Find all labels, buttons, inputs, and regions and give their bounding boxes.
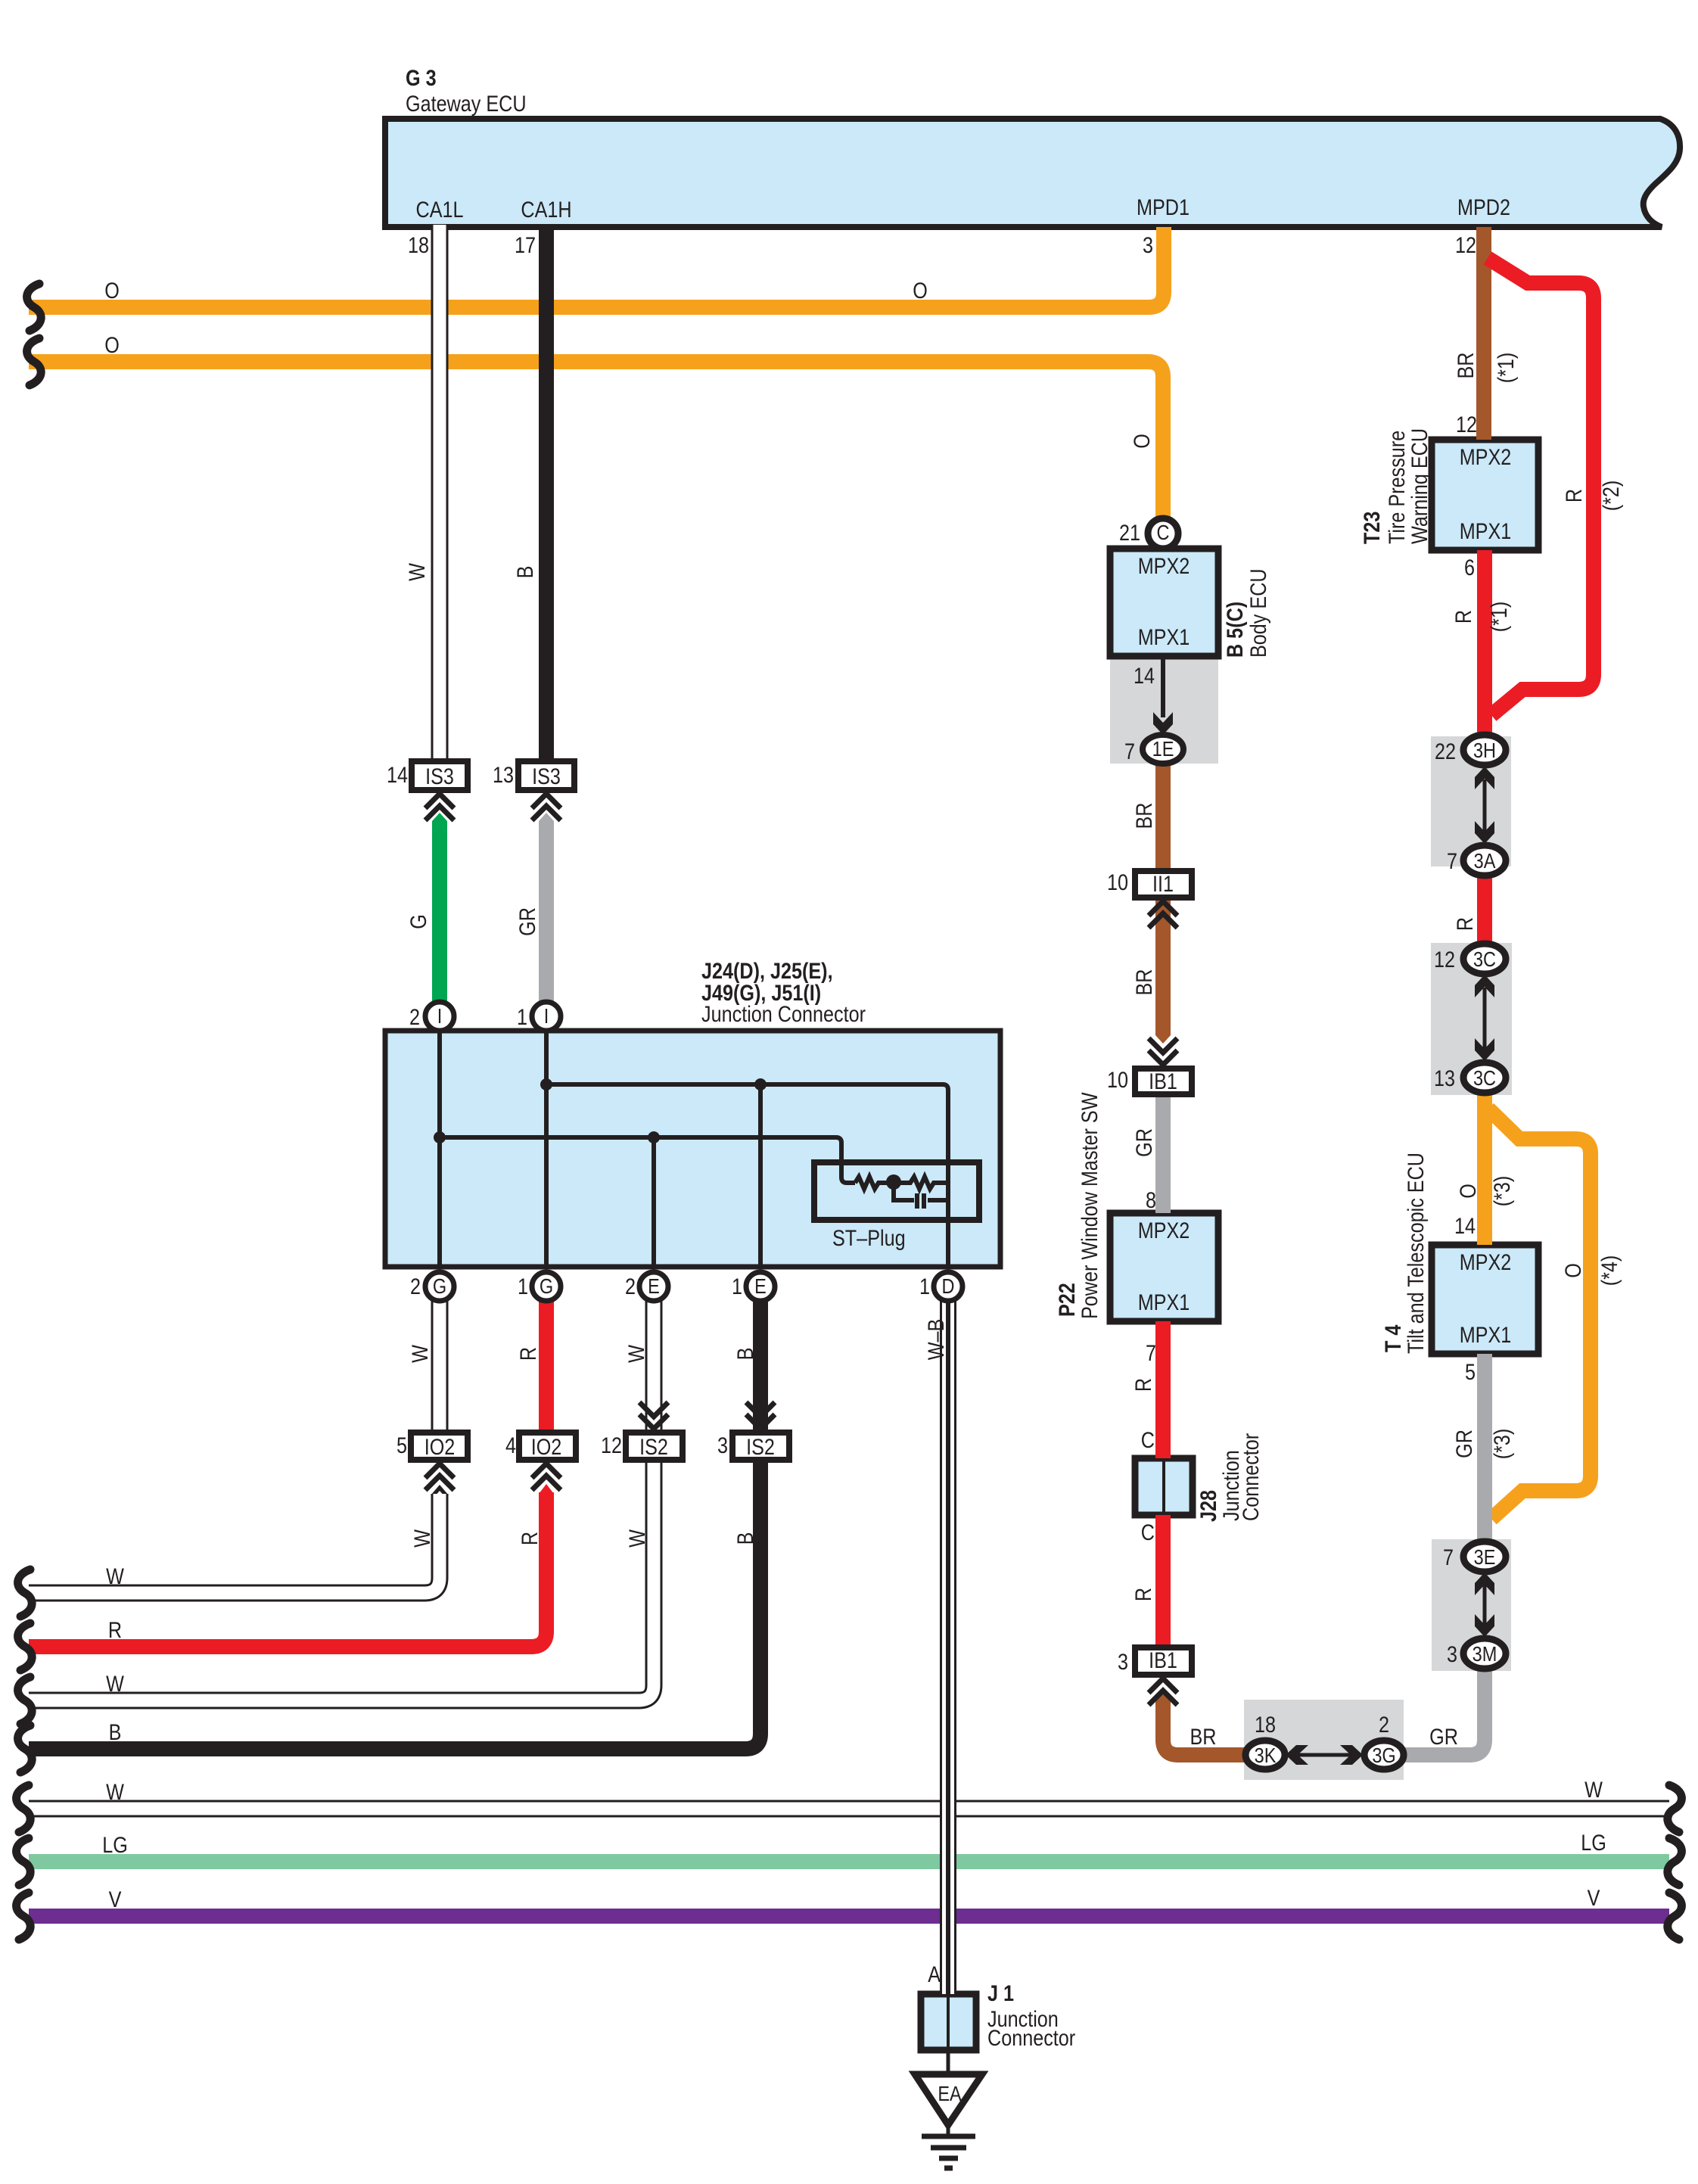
svg-text:(*4): (*4)	[1597, 1255, 1622, 1286]
svg-text:3: 3	[1118, 1649, 1128, 1675]
svg-text:J 1: J 1	[987, 1980, 1014, 2006]
svg-text:13: 13	[493, 762, 514, 788]
svg-text:13: 13	[1434, 1066, 1455, 1091]
svg-text:BR: BR	[1190, 1724, 1217, 1750]
svg-text:IS3: IS3	[532, 764, 561, 789]
svg-text:1E: 1E	[1152, 738, 1174, 761]
svg-text:O: O	[913, 278, 928, 303]
svg-text:T23: T23	[1359, 512, 1385, 544]
svg-text:12: 12	[601, 1433, 622, 1458]
svg-text:3A: 3A	[1474, 850, 1496, 873]
svg-text:W: W	[409, 1529, 435, 1548]
svg-text:A: A	[928, 1962, 941, 1987]
svg-text:7: 7	[1443, 1545, 1454, 1570]
svg-text:BR: BR	[1131, 969, 1157, 996]
svg-text:V: V	[109, 1887, 122, 1912]
svg-text:Body ECU: Body ECU	[1246, 568, 1271, 658]
svg-text:O: O	[104, 278, 120, 303]
svg-text:I: I	[437, 1005, 443, 1028]
svg-text:12: 12	[1434, 947, 1455, 972]
svg-text:O: O	[1455, 1184, 1481, 1199]
svg-text:(*1): (*1)	[1486, 602, 1512, 633]
svg-text:J28: J28	[1196, 1490, 1221, 1522]
svg-text:O: O	[104, 332, 120, 358]
svg-text:IS3: IS3	[425, 764, 454, 789]
svg-text:B: B	[732, 1532, 758, 1545]
svg-text:1: 1	[919, 1274, 930, 1299]
svg-text:3H: 3H	[1473, 739, 1496, 762]
svg-text:18: 18	[408, 232, 429, 258]
svg-text:3K: 3K	[1255, 1744, 1277, 1767]
svg-text:10: 10	[1107, 870, 1128, 895]
svg-text:2: 2	[1379, 1712, 1389, 1738]
svg-text:Tilt and Telescopic ECU: Tilt and Telescopic ECU	[1403, 1153, 1429, 1354]
svg-text:ST–Plug: ST–Plug	[832, 1225, 906, 1251]
svg-text:18: 18	[1255, 1712, 1276, 1738]
svg-text:3M: 3M	[1473, 1643, 1497, 1666]
svg-text:MPX1: MPX1	[1138, 624, 1190, 650]
svg-text:MPX2: MPX2	[1138, 1218, 1190, 1243]
svg-text:R: R	[1561, 489, 1587, 502]
svg-text:Gateway ECU: Gateway ECU	[406, 91, 527, 117]
svg-text:3: 3	[1143, 232, 1153, 258]
svg-text:C: C	[1157, 521, 1170, 544]
svg-text:8: 8	[1146, 1187, 1156, 1213]
svg-text:CA1H: CA1H	[521, 197, 571, 222]
svg-text:W: W	[624, 1529, 650, 1548]
svg-text:E: E	[754, 1275, 767, 1298]
svg-text:E: E	[648, 1275, 660, 1298]
svg-text:P22: P22	[1054, 1283, 1080, 1317]
svg-text:R: R	[1451, 610, 1476, 624]
svg-text:MPX1: MPX1	[1138, 1290, 1190, 1315]
svg-text:14: 14	[1134, 663, 1155, 689]
svg-text:MPX2: MPX2	[1460, 1249, 1512, 1275]
svg-text:B: B	[109, 1719, 122, 1745]
svg-text:7: 7	[1447, 848, 1457, 874]
svg-text:2: 2	[409, 1004, 420, 1030]
svg-text:EA: EA	[938, 2083, 962, 2105]
svg-text:IO2: IO2	[424, 1434, 456, 1460]
svg-text:GR: GR	[515, 907, 540, 936]
svg-text:G: G	[406, 914, 431, 929]
svg-text:R: R	[517, 1532, 543, 1545]
svg-text:D: D	[942, 1275, 955, 1298]
svg-text:3: 3	[717, 1433, 728, 1458]
svg-text:W: W	[407, 1344, 433, 1363]
svg-text:MPX2: MPX2	[1460, 444, 1512, 470]
svg-text:C: C	[1141, 1427, 1155, 1453]
svg-text:(*2): (*2)	[1598, 481, 1624, 512]
svg-text:T 4: T 4	[1380, 1324, 1406, 1352]
svg-text:12: 12	[1456, 412, 1477, 437]
svg-text:21: 21	[1119, 520, 1140, 546]
svg-text:3: 3	[1447, 1641, 1457, 1667]
svg-text:BR: BR	[1131, 803, 1157, 829]
svg-text:(*3): (*3)	[1489, 1429, 1515, 1460]
svg-text:5: 5	[397, 1433, 407, 1458]
svg-text:7: 7	[1124, 739, 1135, 764]
svg-text:6: 6	[1464, 555, 1475, 580]
svg-text:MPX1: MPX1	[1460, 518, 1512, 544]
svg-text:Power Window Master SW: Power Window Master SW	[1077, 1092, 1102, 1319]
svg-text:17: 17	[515, 232, 536, 258]
svg-text:G: G	[433, 1275, 446, 1298]
svg-text:G: G	[540, 1275, 553, 1298]
svg-text:O: O	[1560, 1263, 1586, 1278]
svg-text:2: 2	[410, 1274, 421, 1299]
svg-text:LG: LG	[102, 1832, 128, 1858]
svg-text:12: 12	[1455, 232, 1476, 258]
svg-text:IO2: IO2	[531, 1434, 562, 1460]
svg-text:2: 2	[625, 1274, 636, 1299]
svg-text:W: W	[1584, 1777, 1603, 1803]
svg-text:LG: LG	[1581, 1830, 1606, 1856]
svg-text:1: 1	[732, 1274, 742, 1299]
svg-text:3G: 3G	[1372, 1744, 1395, 1767]
svg-text:G 3: G 3	[406, 65, 437, 91]
svg-text:GR: GR	[1131, 1128, 1157, 1157]
svg-text:Junction Connector: Junction Connector	[701, 1001, 866, 1027]
svg-text:II1: II1	[1152, 871, 1174, 897]
svg-text:B: B	[512, 566, 538, 579]
svg-text:7: 7	[1146, 1340, 1156, 1366]
svg-text:MPD2: MPD2	[1457, 194, 1510, 220]
svg-text:W: W	[404, 562, 430, 581]
svg-text:C: C	[1141, 1520, 1155, 1545]
svg-text:1: 1	[518, 1274, 528, 1299]
svg-text:R: R	[1130, 1588, 1156, 1601]
svg-text:R: R	[1452, 917, 1478, 931]
svg-text:IS2: IS2	[639, 1434, 668, 1460]
svg-text:5: 5	[1465, 1359, 1476, 1385]
svg-text:V: V	[1588, 1885, 1600, 1911]
svg-text:W: W	[106, 1779, 125, 1805]
svg-text:IB1: IB1	[1149, 1647, 1177, 1673]
svg-text:22: 22	[1435, 739, 1456, 764]
svg-text:W: W	[624, 1344, 649, 1363]
svg-text:R: R	[1130, 1378, 1156, 1392]
svg-text:I: I	[544, 1005, 549, 1028]
svg-text:3E: 3E	[1474, 1546, 1496, 1569]
svg-text:14: 14	[387, 762, 408, 788]
svg-text:IS2: IS2	[746, 1434, 775, 1460]
svg-text:14: 14	[1454, 1213, 1476, 1239]
svg-text:GR: GR	[1429, 1724, 1458, 1750]
svg-text:Tire Pressure: Tire Pressure	[1384, 431, 1410, 544]
svg-text:B: B	[732, 1348, 758, 1361]
svg-text:Connector: Connector	[1238, 1433, 1264, 1521]
svg-text:Warning ECU: Warning ECU	[1407, 428, 1432, 544]
svg-text:BR: BR	[1453, 353, 1479, 379]
svg-text:W: W	[106, 1671, 125, 1697]
svg-text:3C: 3C	[1473, 1067, 1496, 1090]
svg-text:IB1: IB1	[1149, 1069, 1177, 1094]
svg-text:1: 1	[517, 1004, 527, 1030]
svg-text:R: R	[515, 1347, 541, 1361]
svg-text:W–B: W–B	[923, 1319, 949, 1361]
svg-text:R: R	[108, 1617, 122, 1643]
svg-text:(*1): (*1)	[1493, 353, 1519, 384]
svg-text:4: 4	[505, 1433, 516, 1458]
svg-text:Connector: Connector	[987, 2025, 1075, 2051]
svg-text:(*3): (*3)	[1489, 1176, 1515, 1207]
svg-text:MPX1: MPX1	[1460, 1322, 1512, 1348]
svg-text:GR: GR	[1451, 1430, 1477, 1458]
svg-text:O: O	[1129, 434, 1155, 449]
svg-text:MPD1: MPD1	[1137, 194, 1190, 220]
svg-text:CA1L: CA1L	[415, 197, 463, 222]
svg-text:W: W	[106, 1563, 125, 1589]
svg-text:10: 10	[1107, 1067, 1128, 1093]
svg-text:B 5(C): B 5(C)	[1222, 602, 1248, 658]
svg-text:MPX2: MPX2	[1138, 553, 1190, 579]
svg-text:3C: 3C	[1473, 948, 1496, 971]
